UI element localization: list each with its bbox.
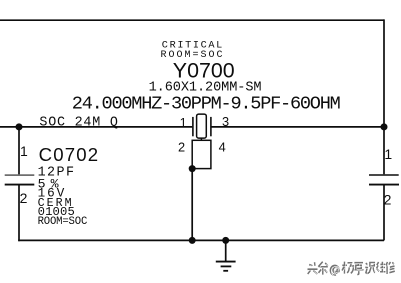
capacitor right bottom plate [369,184,399,186]
node junction ground [222,237,229,244]
node junction crystal case [189,165,196,172]
svg-text:ROOM=SOC: ROOM=SOC [38,216,88,228]
node junction right [381,123,388,130]
svg-text:4: 4 [219,139,226,154]
crystal Y0700 bottom stub [200,138,202,140]
svg-text:24.000MHZ-30PPM-9.5PF-60OHM: 24.000MHZ-30PPM-9.5PF-60OHM [72,93,341,114]
node junction bottom rail [189,237,196,244]
svg-text:Y0700: Y0700 [173,58,235,82]
wire: left cap upper segment [18,127,20,175]
wire: crystal to right junction [211,126,384,128]
wire: left cap lower segment [18,185,20,242]
wire: top rail horizontal [0,19,384,21]
wire: right rail vertical upper [383,19,385,175]
svg-text:1: 1 [20,143,28,159]
wire: crystal case down to ground rail [191,169,193,241]
svg-text:2: 2 [178,139,185,154]
crystal Y0700 left plate [192,117,194,136]
svg-text:3: 3 [222,114,229,129]
svg-text:C0702: C0702 [39,144,99,165]
wire: bottom ground rail [18,239,384,241]
node junction left [16,123,23,130]
svg-text:2: 2 [20,190,28,206]
svg-text:1: 1 [384,146,392,162]
crystal Y0700 case outline [192,140,211,168]
capacitor right top plate [369,174,399,176]
wire: ground stub [225,240,227,261]
svg-text:1: 1 [180,115,187,130]
crystal Y0700 right plate [210,117,212,136]
wire: right cap lower segment [383,185,385,241]
crystal Y0700 body [197,114,207,138]
capacitor C0702 top plate [5,174,35,176]
wire: left horizontal net SOC_24M_Q [0,126,192,128]
capacitor C0702 bottom plate [5,184,35,186]
ground symbol [216,262,236,271]
svg-text:2: 2 [384,191,392,207]
svg-text:SOC_24M_Q: SOC_24M_Q [39,115,118,130]
